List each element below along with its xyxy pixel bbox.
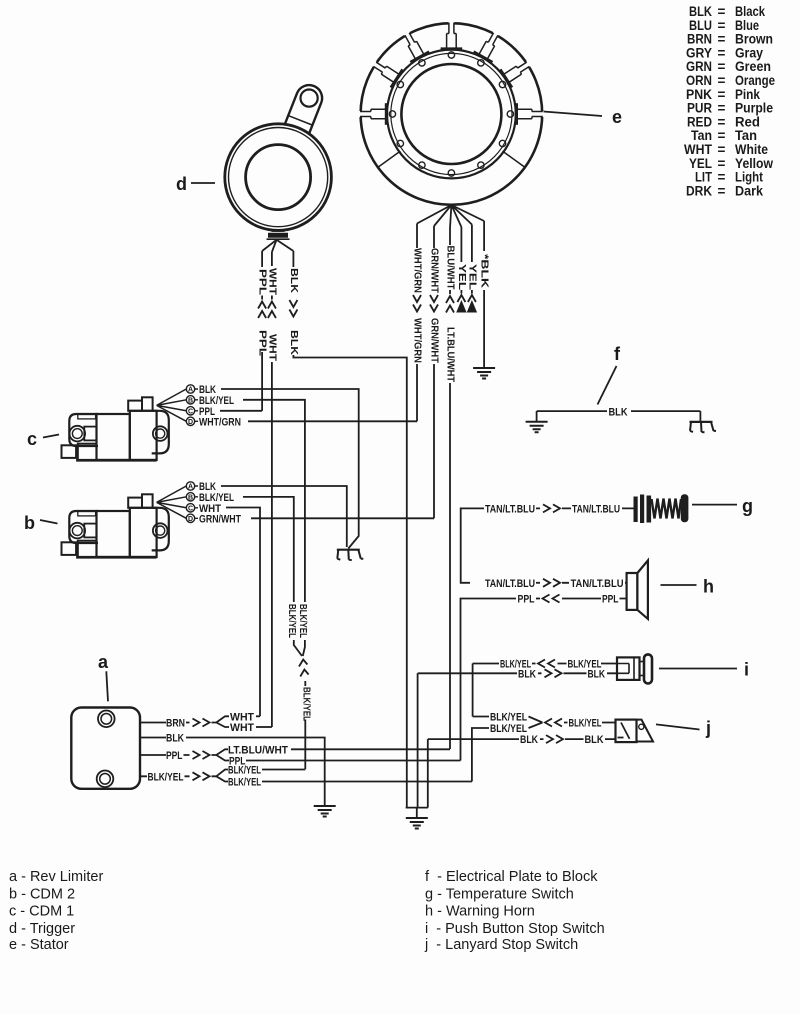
svg-text:Tan: Tan bbox=[691, 128, 712, 143]
svg-text:=: = bbox=[718, 128, 726, 143]
svg-text:BLK/YEL: BLK/YEL bbox=[297, 604, 309, 638]
warning horn flare bbox=[637, 560, 648, 619]
svg-text:BLK/YEL: BLK/YEL bbox=[228, 765, 261, 777]
svg-text:Gray: Gray bbox=[735, 45, 763, 60]
ground for electrical plate bbox=[526, 422, 548, 433]
wire YEL 2 bbox=[471, 225, 473, 263]
svg-text:=: = bbox=[718, 59, 726, 74]
push button cap bbox=[644, 654, 652, 683]
svg-text:j: j bbox=[705, 718, 711, 738]
svg-text:BLK: BLK bbox=[288, 268, 300, 293]
i pointer line bbox=[659, 668, 737, 670]
push button switch internals bbox=[617, 657, 634, 680]
wire YEL 1 bbox=[460, 227, 462, 262]
wire PPL connector chevrons female bbox=[258, 296, 266, 319]
svg-text:i: i bbox=[744, 660, 749, 680]
wire PPL trigger upper bbox=[261, 251, 263, 267]
svg-text:=: = bbox=[718, 101, 726, 116]
CDM 1 pointer line bbox=[43, 435, 59, 438]
trigger pointer line bbox=[191, 182, 215, 184]
svg-text:WHT: WHT bbox=[266, 268, 278, 296]
bottom legend left column bbox=[9, 869, 103, 953]
ground for stator BLK bbox=[473, 368, 495, 379]
wire BLK/YEL push button riser to lanyard bbox=[472, 664, 474, 717]
push button BLK chevrons male bbox=[545, 669, 562, 677]
wire PPL to horn riser bbox=[246, 760, 461, 762]
temperature switch body bars bbox=[634, 495, 652, 524]
stator wire fan bbox=[417, 205, 484, 228]
stator lower-left spoke bbox=[378, 151, 401, 167]
wire PPL lower segment to CDM1 C bbox=[261, 352, 263, 411]
BRN split to WHT pair bbox=[212, 716, 230, 727]
wire BLK/YEL lower to lanyard riser bbox=[262, 781, 472, 783]
wire BLK/YEL from rev limiter bbox=[140, 775, 190, 777]
svg-text:Green: Green bbox=[735, 59, 771, 74]
svg-text:TAN/LT.BLU: TAN/LT.BLU bbox=[485, 503, 535, 515]
push button BLK/YEL chevrons female bbox=[538, 660, 555, 668]
svg-text:a: a bbox=[98, 652, 109, 672]
svg-text:BLK/YEL: BLK/YEL bbox=[148, 771, 184, 783]
svg-text:D: D bbox=[188, 419, 193, 426]
svg-text:BLK/YEL: BLK/YEL bbox=[228, 776, 261, 788]
BLK/YEL merged wire down to rev limiter bbox=[304, 681, 306, 769]
svg-text:d: d bbox=[176, 174, 187, 194]
svg-text:=: = bbox=[718, 4, 726, 19]
rev limiter top bolt bbox=[98, 711, 115, 728]
svg-text:White: White bbox=[735, 142, 768, 157]
stator bolt flange ring inner bbox=[391, 53, 512, 174]
wire CDM1 A BLK to engine fork bbox=[221, 389, 359, 549]
svg-text:B: B bbox=[188, 494, 193, 501]
svg-text:h: h bbox=[703, 577, 714, 597]
ground for rev limiter BLK bbox=[314, 806, 336, 817]
wire BLK electrical plate bbox=[537, 410, 701, 412]
svg-text:GRN: GRN bbox=[686, 59, 712, 74]
svg-text:Yellow: Yellow bbox=[735, 156, 773, 171]
wire BLU/WHT connector chevrons female bbox=[446, 290, 454, 313]
lanyard BLK chevrons male bbox=[546, 735, 563, 743]
wire CDM2 A BLK to engine fork bbox=[221, 486, 347, 547]
wire LT.BLU/WHT to stator wire bbox=[291, 748, 450, 750]
svg-text:f: f bbox=[614, 344, 621, 364]
svg-text:a - Rev Limiter: a - Rev Limiter bbox=[9, 869, 103, 885]
YEL 1 bullet terminal bbox=[457, 290, 465, 302]
lanyard switch wedge bbox=[637, 720, 654, 742]
wire GRN/WHT lower segment to CDM2 D bbox=[433, 364, 435, 518]
wire BLK lanyard segment 2 bbox=[565, 738, 616, 740]
lanyard BLK/YEL chevrons female bbox=[545, 719, 562, 727]
svg-text:PPL: PPL bbox=[602, 594, 619, 606]
stator inner bore circle bbox=[401, 64, 501, 164]
wire BLK push button segment 2 bbox=[564, 672, 618, 674]
svg-text:RED: RED bbox=[687, 114, 712, 129]
ground bar joining BLK wires bbox=[406, 808, 428, 818]
svg-text:f - Electrical Plate to Block: f - Electrical Plate to Block bbox=[425, 869, 598, 885]
svg-text:C: C bbox=[188, 408, 193, 415]
svg-text:GRN/WHT: GRN/WHT bbox=[429, 318, 441, 364]
lanyard switch clip diagonal bbox=[618, 723, 630, 739]
svg-text:c: c bbox=[27, 429, 37, 449]
wire WHT lower segment down to rev limiter WHT bbox=[271, 362, 273, 727]
CDM 2 pin letters bbox=[188, 484, 193, 523]
svg-text:YEL: YEL bbox=[689, 156, 712, 171]
bracket joining temperature switch and horn wires bbox=[461, 508, 470, 582]
trigger second ring bbox=[229, 128, 328, 227]
rev limiter bottom bolt bbox=[97, 771, 114, 788]
stator bolt flange ring outer bbox=[387, 50, 516, 179]
wire TAN/LT.BLU to temperature switch bbox=[470, 507, 540, 509]
horn PPL chevrons female bbox=[543, 595, 560, 603]
svg-text:PNK: PNK bbox=[686, 87, 712, 102]
svg-text:A: A bbox=[188, 484, 193, 491]
trigger arm bbox=[281, 81, 326, 144]
svg-text:A: A bbox=[188, 387, 193, 394]
svg-text:BLK/YEL: BLK/YEL bbox=[490, 712, 527, 724]
wire BRN from rev limiter bbox=[140, 722, 190, 724]
CDM 2 pointer line bbox=[40, 520, 58, 524]
wire BLK/YEL push button bbox=[473, 663, 536, 665]
svg-text:i - Push Button Stop Switch: i - Push Button Stop Switch bbox=[425, 921, 605, 937]
svg-text:e - Stator: e - Stator bbox=[9, 937, 69, 953]
wire color code legend bbox=[684, 4, 775, 198]
svg-text:Pink: Pink bbox=[735, 87, 760, 102]
lanyard switch curl bbox=[639, 724, 644, 729]
svg-text:D: D bbox=[188, 516, 193, 523]
trigger d bbox=[225, 81, 332, 239]
svg-text:B: B bbox=[188, 397, 193, 404]
wire BLK trigger lower, right turn and down to ground bbox=[293, 355, 406, 808]
wire TAN/LT.BLU horn segment 2 bbox=[562, 582, 627, 584]
engine block fork for electrical plate bbox=[690, 422, 717, 433]
g pointer line bbox=[692, 504, 737, 506]
stator lower-right spoke bbox=[503, 151, 526, 167]
svg-text:=: = bbox=[718, 18, 726, 33]
wire BLK/YEL lanyard upper bbox=[473, 717, 543, 723]
svg-text:BLU: BLU bbox=[689, 18, 712, 33]
svg-text:BLK: BLK bbox=[585, 734, 604, 746]
svg-text:=: = bbox=[718, 142, 726, 157]
svg-text:b - CDM 2: b - CDM 2 bbox=[9, 886, 75, 902]
ground symbol for BLK wires bbox=[406, 818, 428, 829]
wire CDM1 B BLK/YEL down bbox=[243, 400, 305, 602]
wire BLK push button riser to ground bbox=[417, 673, 419, 807]
wire BLK from rev limiter to ground bbox=[140, 738, 325, 807]
wire TAN/LT.BLU to horn bbox=[536, 582, 540, 584]
bottom legend right column bbox=[424, 869, 605, 953]
trigger bottom boot bbox=[272, 230, 285, 232]
YEL 2 bullet filled bbox=[467, 300, 477, 313]
svg-text:GRY: GRY bbox=[686, 45, 712, 60]
svg-text:TAN/LT.BLU: TAN/LT.BLU bbox=[571, 578, 624, 590]
svg-text:PUR: PUR bbox=[687, 101, 712, 116]
j pointer line bbox=[656, 724, 700, 729]
svg-text:Light: Light bbox=[735, 170, 763, 185]
svg-text:WHT/GRN: WHT/GRN bbox=[412, 248, 424, 293]
svg-text:c - CDM 1: c - CDM 1 bbox=[9, 903, 74, 919]
svg-text:=: = bbox=[718, 45, 726, 60]
engine block fork connector (CDM grounds) bbox=[337, 550, 364, 561]
svg-text:g: g bbox=[742, 496, 753, 516]
stator e bbox=[357, 20, 546, 205]
svg-text:=: = bbox=[718, 114, 726, 129]
BLK/YEL split bbox=[212, 770, 229, 782]
CDM 1 pin letters bbox=[188, 387, 193, 426]
CDM 2 pin labels bbox=[199, 481, 241, 525]
svg-text:Brown: Brown bbox=[735, 32, 773, 47]
svg-text:j - Lanyard Stop Switch: j - Lanyard Stop Switch bbox=[424, 937, 578, 953]
svg-text:*BLK: *BLK bbox=[479, 254, 491, 289]
wire BLK push button bbox=[418, 672, 542, 674]
svg-text:Tan: Tan bbox=[735, 128, 757, 143]
svg-text:BLU/WHT: BLU/WHT bbox=[445, 246, 457, 291]
PPL connector chevrons male bbox=[193, 751, 210, 759]
rev limiter pointer line bbox=[106, 671, 108, 701]
BLK/YEL connector chevrons male bbox=[193, 772, 210, 780]
YEL 1 bullet filled bbox=[456, 300, 466, 313]
svg-text:LIT: LIT bbox=[695, 170, 713, 185]
trigger wire fan bbox=[262, 240, 293, 252]
wire BLK/YEL lanyard merged bbox=[564, 722, 616, 724]
svg-text:TAN/LT.BLU: TAN/LT.BLU bbox=[485, 578, 535, 590]
svg-text:d - Trigger: d - Trigger bbox=[9, 921, 75, 937]
svg-text:Blue: Blue bbox=[735, 18, 759, 33]
wire WHT/GRN stator upper bbox=[416, 224, 418, 249]
svg-text:h - Warning Horn: h - Warning Horn bbox=[425, 903, 535, 919]
svg-text:DRK: DRK bbox=[686, 183, 712, 198]
svg-text:WHT: WHT bbox=[230, 722, 254, 734]
rev limiter wire labels bbox=[148, 711, 289, 788]
wire GRN/WHT connector chevrons bbox=[430, 295, 438, 312]
svg-text:YEL: YEL bbox=[456, 264, 468, 291]
temperature switch spring bbox=[652, 499, 682, 519]
svg-text:BLK: BLK bbox=[520, 734, 538, 746]
svg-text:Dark: Dark bbox=[735, 183, 763, 198]
svg-text:GRN/WHT: GRN/WHT bbox=[199, 513, 241, 525]
svg-text:PPL: PPL bbox=[518, 594, 535, 606]
wire LT.BLU/WHT lower segment bbox=[449, 383, 451, 749]
wire PPL horn segment 2 bbox=[562, 598, 627, 600]
svg-text:Black: Black bbox=[735, 4, 765, 19]
YEL 2 bullet terminal bbox=[468, 290, 476, 302]
svg-text:e: e bbox=[612, 107, 622, 127]
svg-text:Red: Red bbox=[735, 114, 760, 129]
wire PPL from rev limiter bbox=[140, 754, 190, 756]
trigger inner bore bbox=[246, 145, 311, 210]
wire PPL horn segment bbox=[536, 598, 540, 600]
rev limiter a body bbox=[71, 708, 140, 789]
wire BLK trigger upper bbox=[292, 251, 294, 267]
svg-text:=: = bbox=[718, 156, 726, 171]
wire WHT/GRN lower segment to CDM1 D bbox=[416, 364, 418, 421]
electrical plate right drop to fork bbox=[699, 411, 701, 421]
svg-text:=: = bbox=[718, 73, 726, 88]
wire CDM2 B BLK/YEL down bbox=[243, 497, 294, 602]
push button switch body bbox=[617, 657, 640, 680]
svg-text:BRN: BRN bbox=[166, 718, 185, 730]
wire CDM2 C WHT down to rev limiter WHT bbox=[226, 508, 260, 717]
temperature switch end cap bbox=[681, 494, 689, 522]
wire PPL riser from rev limiter to horn bbox=[461, 599, 517, 761]
CDM 1 pin labels bbox=[199, 384, 241, 428]
svg-text:BLK: BLK bbox=[166, 733, 184, 745]
wire WHT connector chevrons female bbox=[268, 296, 276, 319]
svg-text:BLK: BLK bbox=[609, 406, 628, 418]
wire WHT 1 to CDM2 C bbox=[256, 715, 260, 717]
horn TAN chevrons male bbox=[543, 579, 560, 587]
wire BLK connector chevrons male bbox=[289, 300, 297, 317]
temp switch chevrons male bbox=[543, 504, 560, 512]
svg-text:g - Temperature Switch: g - Temperature Switch bbox=[425, 886, 574, 902]
svg-text:BLK/YEL: BLK/YEL bbox=[300, 687, 312, 721]
svg-text:Orange: Orange bbox=[735, 73, 775, 88]
svg-text:Purple: Purple bbox=[735, 101, 773, 116]
svg-text:=: = bbox=[718, 183, 726, 198]
electrical plate left drop to ground bbox=[536, 411, 538, 422]
svg-text:BLK: BLK bbox=[689, 4, 712, 19]
svg-text:LT.BLU/WHT: LT.BLU/WHT bbox=[228, 744, 288, 756]
svg-text:C: C bbox=[188, 505, 193, 512]
wire BLK/YEL lanyard lower riser from rev limiter bbox=[472, 728, 489, 782]
BLK/YEL merge chevrons female bbox=[299, 660, 309, 677]
svg-text:PPL: PPL bbox=[166, 750, 183, 762]
svg-text:WHT/GRN: WHT/GRN bbox=[412, 318, 424, 363]
wire WHT 2 to trigger WHT bbox=[256, 726, 272, 728]
f pointer line bbox=[598, 366, 617, 405]
stator bolt holes bbox=[389, 52, 513, 176]
wire CDM1 D WHT/GRN to stator bbox=[248, 420, 417, 422]
PPL split to LT.BLU/WHT and PPL bbox=[212, 749, 230, 760]
stator outer ring bbox=[361, 23, 543, 205]
wire BLU/WHT stator upper bbox=[449, 228, 451, 245]
trigger arm eyelet hole bbox=[301, 90, 318, 107]
wire GRN/WHT stator upper bbox=[433, 226, 435, 248]
wire CDM1 C PPL to trigger PPL bbox=[220, 410, 262, 412]
wire BLK lanyard bbox=[428, 738, 544, 740]
svg-text:BLK/YEL: BLK/YEL bbox=[569, 718, 602, 730]
svg-text:GRN/WHT: GRN/WHT bbox=[429, 248, 441, 294]
push button connector neck bbox=[640, 662, 645, 676]
wire WHT/GRN connector chevrons bbox=[413, 295, 421, 312]
BLK/YEL merge diagonals bbox=[294, 640, 305, 656]
wire CDM2 D GRN/WHT to stator bbox=[251, 517, 434, 519]
CDM 1 module c body bbox=[62, 385, 199, 461]
svg-text:BLK: BLK bbox=[518, 668, 536, 680]
warning horn body bbox=[627, 573, 638, 610]
svg-text:TAN/LT.BLU: TAN/LT.BLU bbox=[572, 503, 620, 515]
svg-text:BLK: BLK bbox=[288, 330, 300, 355]
wire WHT trigger upper bbox=[271, 252, 273, 266]
svg-text:ORN: ORN bbox=[686, 73, 712, 88]
svg-text:b: b bbox=[24, 513, 35, 533]
svg-text:=: = bbox=[718, 32, 726, 47]
stator pointer line bbox=[544, 112, 603, 117]
svg-text:=: = bbox=[718, 170, 726, 185]
svg-text:WHT: WHT bbox=[266, 334, 278, 362]
wire BLK lanyard riser to ground bbox=[427, 739, 429, 808]
svg-text:WHT: WHT bbox=[684, 142, 713, 157]
svg-text:=: = bbox=[718, 87, 726, 102]
h pointer line bbox=[661, 584, 697, 586]
wire BLK/YEL lanyard lower merge stub bbox=[529, 723, 543, 729]
lanyard switch body bbox=[616, 720, 637, 743]
wire BLK/YEL push button segment 2 bbox=[558, 663, 618, 665]
svg-text:LT.BLU/WHT: LT.BLU/WHT bbox=[445, 327, 457, 383]
svg-text:BLK: BLK bbox=[588, 668, 606, 680]
svg-text:BRN: BRN bbox=[687, 32, 712, 47]
BRN connector chevrons male bbox=[193, 719, 210, 727]
svg-text:YEL: YEL bbox=[466, 264, 478, 291]
wire *BLK to ground bbox=[483, 221, 485, 368]
stator rim notches bbox=[357, 20, 546, 125]
wire BLK/YEL upper to CDM riser bbox=[262, 769, 305, 771]
trigger outer ring bbox=[225, 124, 332, 231]
wire TAN/LT.BLU segment 2 bbox=[562, 507, 634, 509]
svg-text:WHT/GRN: WHT/GRN bbox=[199, 416, 241, 428]
svg-text:BLK/YEL: BLK/YEL bbox=[286, 604, 298, 638]
CDM 2 module b body bbox=[62, 482, 199, 558]
